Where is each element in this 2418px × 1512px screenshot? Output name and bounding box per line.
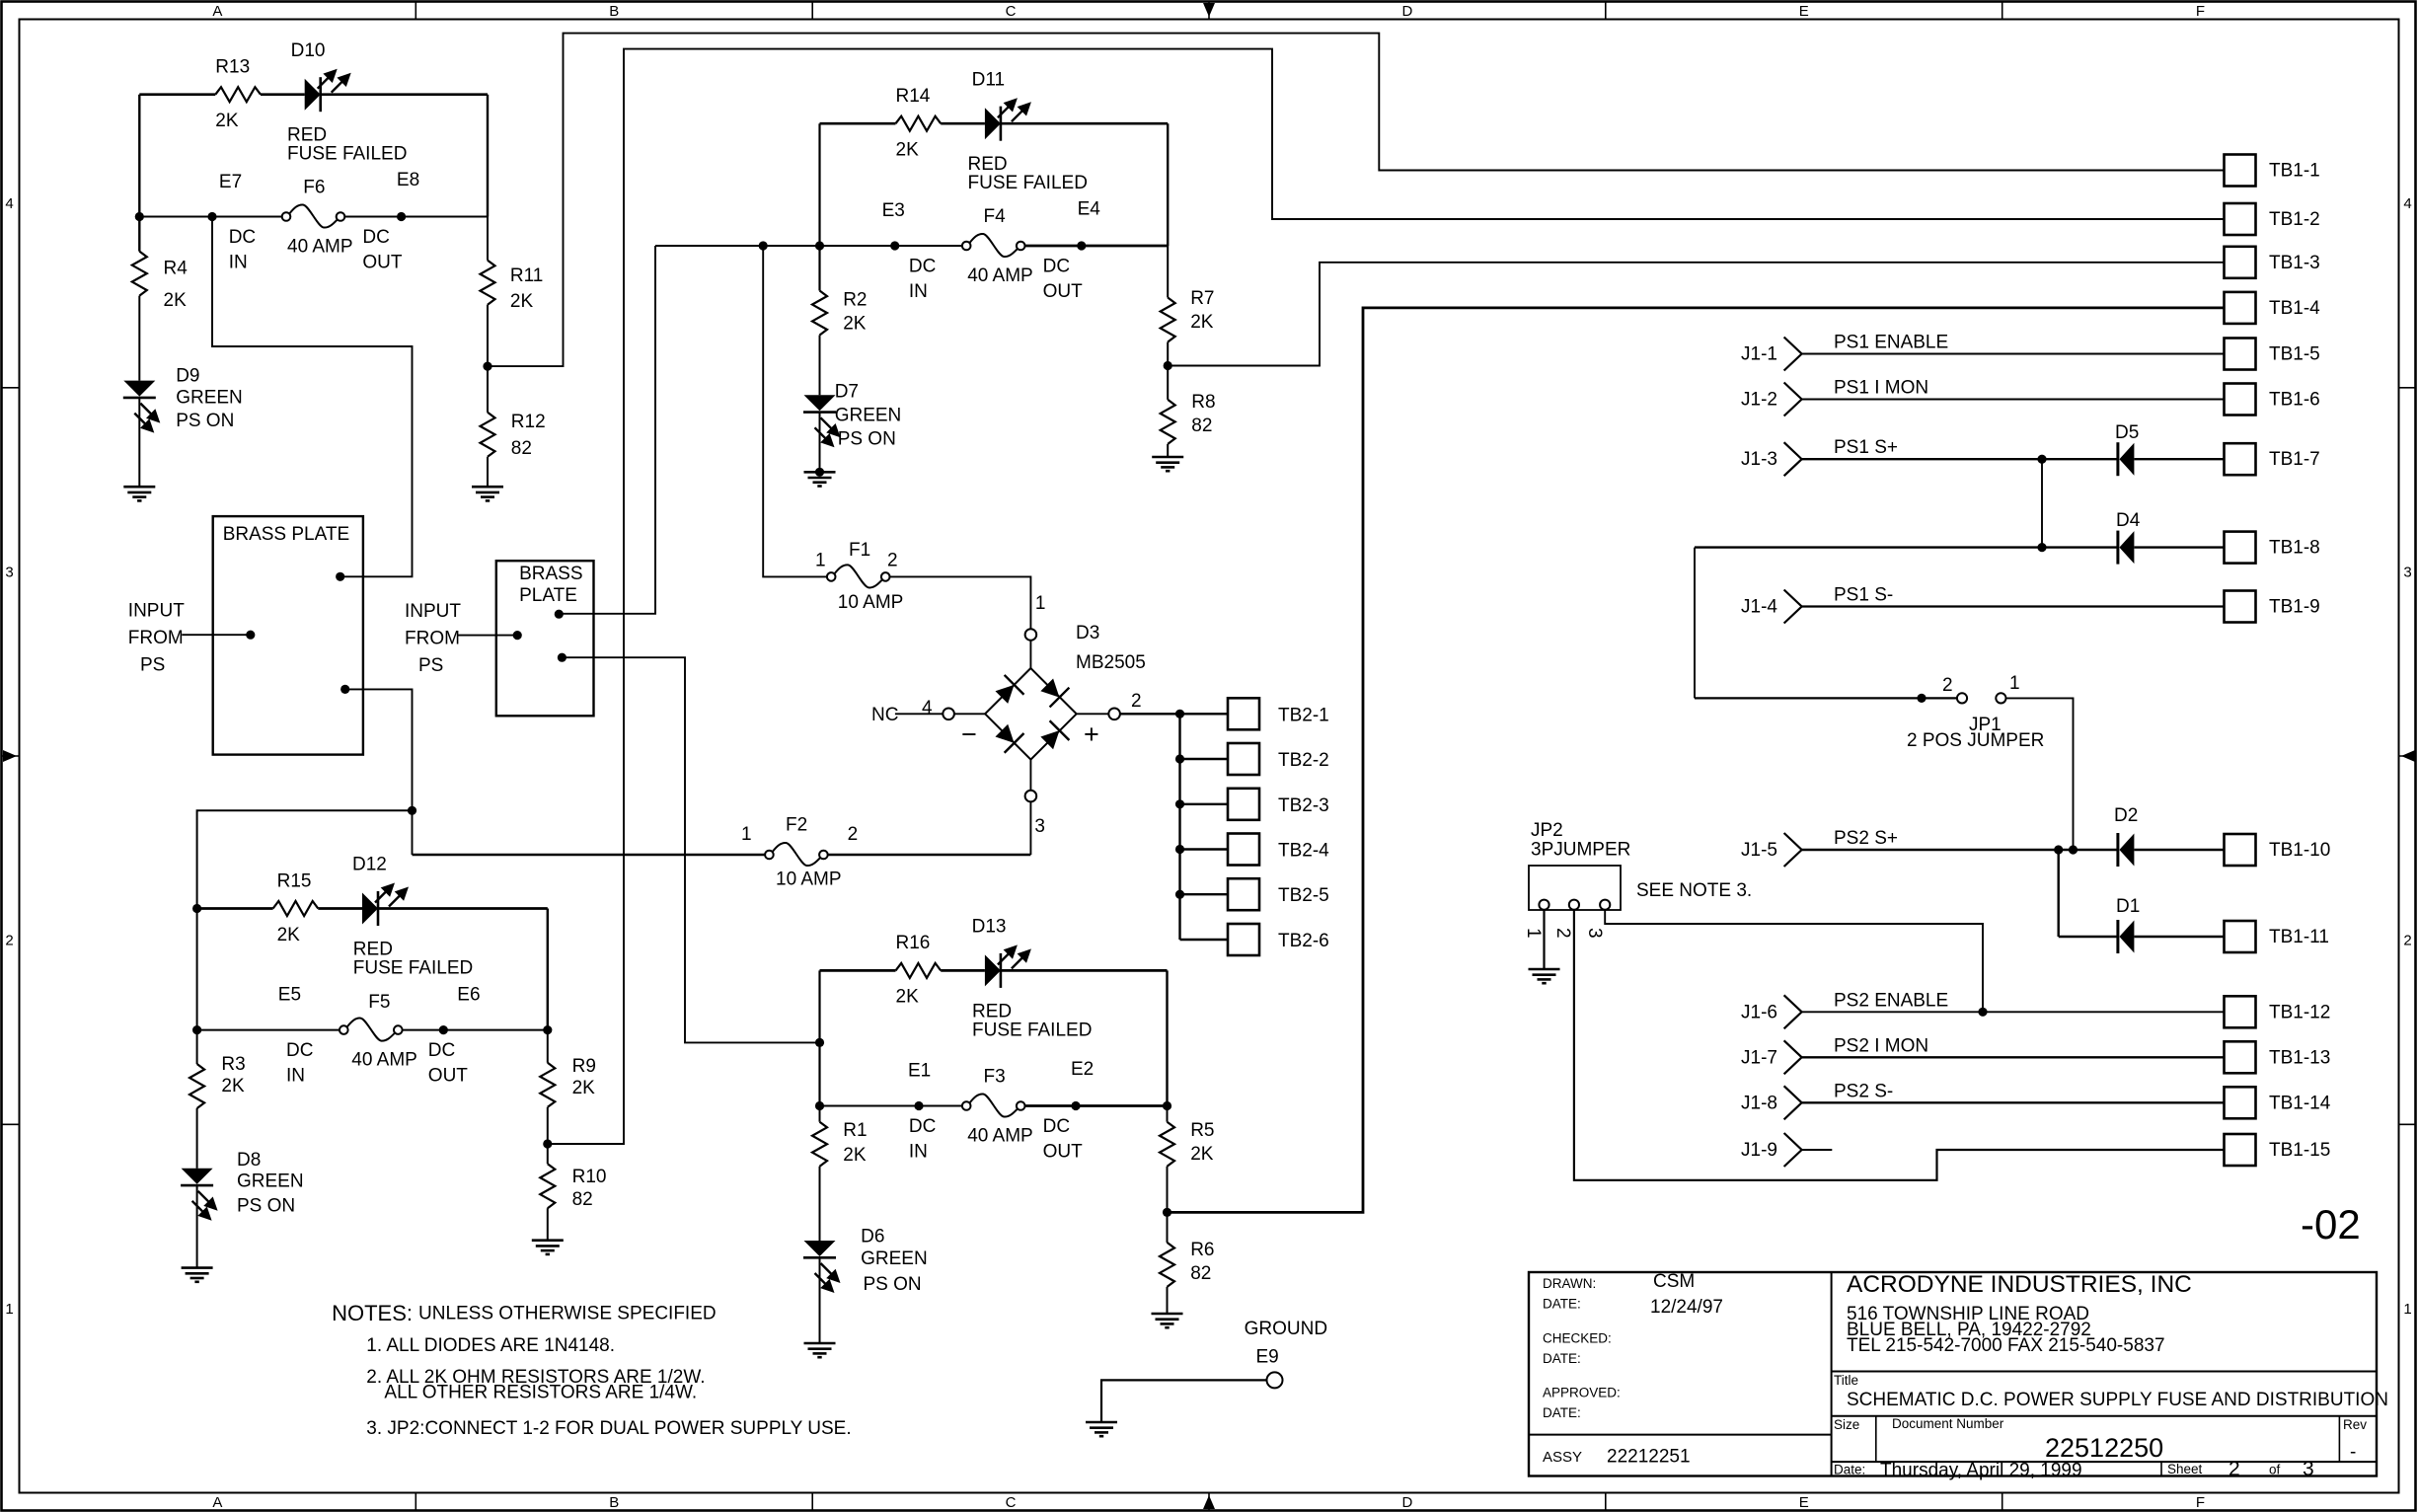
svg-text:SEE NOTE 3.: SEE NOTE 3. [1636,880,1752,901]
resistor R15 2K [273,901,319,916]
svg-text:2K: 2K [164,290,188,311]
wire brass plate 2 lower pin to block4 feed [562,657,819,1042]
svg-text:Document Number: Document Number [1892,1416,2004,1431]
wire R3 to D8 [196,1108,198,1169]
svg-text:SCHEMATIC D.C. POWER SUPPLY FU: SCHEMATIC D.C. POWER SUPPLY FUSE AND DIS… [1847,1390,2388,1410]
svg-text:FUSE FAILED: FUSE FAILED [968,173,1088,193]
junction TB2-3 tap [1175,799,1184,808]
pin brass plate 2 top [555,610,564,619]
wire bridge pin2 to TB2 trunk [1120,713,1180,715]
svg-text:INPUT: INPUT [128,600,185,621]
svg-text:TB1-5: TB1-5 [2269,344,2320,365]
svg-text:1: 1 [2009,673,2020,694]
svg-text:J1-7: J1-7 [1741,1047,1777,1068]
fuse F3 40 AMP [962,1094,1025,1116]
svg-text:82: 82 [1191,416,1212,436]
wire JP2 pin3 to PS2 ENABLE [1605,910,1983,1013]
svg-text:1: 1 [2403,1301,2411,1318]
svg-text:2K: 2K [1190,1144,1214,1165]
svg-text:3: 3 [5,564,13,580]
junction node E3 [890,241,899,250]
svg-text:B: B [609,3,619,20]
wire to TB2-2 [1180,758,1229,760]
svg-text:R5: R5 [1190,1120,1214,1141]
wire R11 to junction [487,305,489,366]
connector J1-8 [1784,1086,1802,1119]
bridge rectifier D3 MB2505 body [985,668,1077,760]
svg-text:FUSE FAILED: FUSE FAILED [972,1020,1092,1040]
svg-text:R11: R11 [510,265,543,286]
svg-text:GREEN: GREEN [237,1172,304,1192]
svg-text:J1-8: J1-8 [1741,1093,1777,1113]
ground (E9) [1086,1422,1117,1436]
wire right column down (block1) [487,95,489,217]
junction node E1 [914,1101,923,1110]
wire DC IN net to brass plate 1 [212,217,413,577]
ground (R8) [1152,457,1183,471]
fuse F4 40 AMP [962,234,1025,257]
junction block3 feed [408,806,416,815]
pin brass plate 2 input [513,631,522,640]
svg-text:2K: 2K [572,1078,596,1098]
fuse F2 10 AMP [765,843,828,866]
svg-text:Title: Title [1834,1373,1858,1388]
wire to TB2-3 [1180,803,1229,805]
svg-text:of: of [2269,1463,2281,1477]
svg-text:B: B [609,1494,619,1511]
svg-text:1: 1 [1035,593,1046,614]
wire right column down (block4) [1166,970,1168,1105]
wire F2 row right [828,854,1030,857]
junction node E4 [1077,241,1086,250]
terminal TB2-5 [1228,878,1259,910]
svg-text:D8: D8 [237,1150,261,1171]
ground (D7) [804,472,836,486]
svg-text:J1-1: J1-1 [1741,344,1777,365]
svg-text:E9: E9 [1256,1347,1279,1368]
svg-text:PS ON: PS ON [838,429,896,450]
svg-text:82: 82 [572,1189,593,1210]
svg-text:UNLESS OTHERWISE SPECIFIED: UNLESS OTHERWISE SPECIFIED [418,1304,717,1324]
svg-text:PS1 S-: PS1 S- [1834,585,1893,606]
terminal TB2-3 [1228,789,1259,820]
wire PS2 ENABLE to TB1-12 [1802,1011,2225,1013]
terminal TB1-4 [2225,292,2256,324]
svg-text:2K: 2K [843,314,867,335]
svg-text:-: - [2350,1442,2356,1463]
svg-text:22512250: 22512250 [2045,1433,2163,1463]
svg-text:TB1-14: TB1-14 [2269,1093,2331,1113]
wire PS1 I MON to TB1-6 [1802,399,2225,401]
wire net sense to TB1-4 [1168,308,2225,1213]
wire F2 row left [413,854,766,857]
wire D8 to ground [196,1185,198,1268]
svg-text:2: 2 [1552,928,1573,939]
pin brass plate 1 input [246,631,255,640]
wire fuse row right (block4) [1025,1104,1168,1107]
svg-text:E: E [1799,3,1809,20]
junction fuse row / left column (block4) [815,1101,824,1110]
resistor R16 2K [896,963,942,978]
svg-text:RED: RED [353,940,393,960]
wire fuse row right (block2) [1025,245,1169,248]
junction R5/R6 sense node [1163,1208,1171,1217]
svg-text:E5: E5 [278,985,301,1006]
terminal TB1-5 [2225,339,2256,370]
wire fuse row to R5 [1167,1106,1169,1122]
svg-text:2: 2 [1942,675,1953,696]
resistor R8 82 [1161,400,1175,444]
svg-text:MB2505: MB2505 [1076,652,1146,673]
svg-text:82: 82 [511,438,532,459]
wire D10 to right column [321,93,488,96]
junction LED row / left column (block3) [192,904,201,913]
svg-text:2K: 2K [896,140,920,161]
svg-text:D7: D7 [835,382,859,403]
svg-text:R10: R10 [572,1167,607,1187]
svg-text:2K: 2K [510,291,534,312]
brass plate 2 box [496,561,594,716]
wire junction to R8 [1167,366,1169,400]
resistor R6 82 [1160,1243,1174,1287]
svg-text:E6: E6 [457,985,480,1006]
wire fuse row right (block3) [403,1029,548,1031]
ground (D9) [123,487,155,500]
fuse F1 10 AMP [827,565,890,587]
ground (D8) [182,1268,213,1282]
svg-text:ASSY: ASSY [1543,1449,1582,1466]
svg-text:D13: D13 [972,917,1007,938]
bridge diode top-left [992,675,1024,708]
svg-text:R15: R15 [277,871,312,892]
svg-text:+: + [1084,719,1099,749]
junction PS2 S+ / JP1 [2069,845,2078,854]
terminal TB1-15 [2225,1134,2256,1166]
wire D4 row [1695,546,2118,548]
pin brass plate 1 bottom [340,685,349,694]
resistor R5 2K [1160,1122,1174,1167]
resistor R1 2K [812,1122,827,1167]
svg-text:TB1-3: TB1-3 [2269,253,2320,273]
diode D4 [2118,531,2135,565]
wire net sense to TB1-3 [1168,263,2224,366]
svg-text:R1: R1 [843,1120,867,1141]
svg-text:TB1-1: TB1-1 [2269,161,2320,182]
svg-text:R3: R3 [221,1054,245,1075]
svg-text:F: F [2196,1494,2205,1511]
svg-text:E8: E8 [397,170,419,190]
svg-text:DATE:: DATE: [1543,1297,1581,1312]
wire R2 to D7 [819,336,821,396]
resistor R7 2K [1161,298,1175,342]
wire D5 to TB1-7 [2135,458,2225,460]
svg-text:TB2-1: TB2-1 [1278,705,1329,725]
svg-text:TB2-3: TB2-3 [1278,795,1329,816]
wire E9 to ground [1101,1380,1267,1422]
svg-text:NOTES:: NOTES: [332,1301,413,1325]
pin bridge 1 [1025,629,1037,641]
svg-text:D: D [1401,1494,1412,1511]
wire to TB2-4 [1180,848,1229,850]
wire net PS2 sense to TB1-2 [548,49,2225,1144]
wire D1 to TB1-11 [2135,936,2225,938]
svg-text:TB2-5: TB2-5 [1278,885,1329,906]
wire to TB2-5 [1180,893,1229,895]
jumper JP2 box [1529,866,1621,910]
svg-text:3: 3 [2403,564,2411,580]
wire branch to D1 row [2057,850,2059,937]
svg-text:2: 2 [1131,691,1142,712]
svg-text:DRAWN:: DRAWN: [1543,1276,1596,1291]
svg-text:F2: F2 [786,815,807,836]
wire PS2 I MON to TB1-13 [1802,1056,2225,1058]
title block [1529,1272,2377,1476]
wire left column upper (block1) [138,95,140,252]
svg-text:-02: -02 [2301,1201,2361,1247]
svg-text:ALL OTHER RESISTORS ARE 1/4W.: ALL OTHER RESISTORS ARE 1/4W. [384,1383,697,1403]
svg-text:D3: D3 [1076,623,1099,643]
svg-text:F3: F3 [984,1067,1006,1088]
svg-text:PS: PS [418,655,443,676]
pin JP2-3 [1600,900,1610,910]
svg-text:10 AMP: 10 AMP [838,592,904,613]
svg-text:TB2-6: TB2-6 [1278,931,1329,951]
svg-text:DC: DC [229,227,256,248]
wire D13 to right column [1001,969,1168,972]
svg-text:Rev: Rev [2343,1417,2367,1432]
wire R16 to D13 [941,969,985,972]
wire left column upper (block2) [818,123,820,290]
svg-text:2: 2 [2229,1458,2240,1480]
svg-text:D10: D10 [291,40,326,61]
wire PS1 S- to TB1-9 [1802,605,2225,607]
svg-text:APPROVED:: APPROVED: [1543,1386,1621,1400]
wire R13 to D10 [261,93,305,96]
svg-text:OUT: OUT [1043,1142,1084,1163]
svg-text:22212251: 22212251 [1607,1447,1691,1468]
connector J1-2 [1784,383,1802,416]
wire feed to block3 left column [197,810,413,908]
svg-text:1: 1 [815,551,826,571]
svg-text:TB1-10: TB1-10 [2269,840,2330,861]
junction node E7 DC IN tap [207,212,216,221]
wire JP1 row [1695,697,1957,699]
connector J1-4 [1784,590,1802,624]
wire diamond to bridge pin3 [1029,760,1031,791]
wire R8 to ground [1167,444,1169,457]
pin bridge 3 [1025,791,1037,802]
svg-text:2K: 2K [896,987,920,1008]
wire fuse row left (block1) [139,216,281,218]
svg-text:PS1 I MON: PS1 I MON [1834,378,1928,399]
svg-text:R13: R13 [215,57,250,78]
svg-text:F1: F1 [849,540,870,561]
junction fuse row / R9 column [543,1025,552,1034]
svg-text:FROM: FROM [405,629,460,649]
svg-text:R16: R16 [896,933,931,953]
pin bridge 2 [1108,709,1120,720]
wire R7 to junction [1167,342,1169,366]
LED D8 GREEN PS ON [181,1169,218,1221]
wire D4 row to JP1 [1694,548,1696,699]
wire branch to D4 row [2041,459,2043,547]
junction fuse row / R5 column [1163,1101,1171,1110]
svg-text:DC: DC [1043,257,1070,277]
svg-text:GREEN: GREEN [861,1248,928,1269]
junction D7 ground [815,468,824,477]
svg-text:RED: RED [972,1001,1012,1021]
resistor R2 2K [812,291,827,336]
svg-text:2: 2 [848,824,859,845]
svg-text:2: 2 [887,551,898,571]
resistor R12 82 [481,413,495,457]
wire fuse row left (block3) [197,1029,340,1031]
LED D13 RED FUSE FAILED [985,945,1031,988]
wire junction to R12 [487,366,489,413]
svg-text:J1-2: J1-2 [1741,390,1777,411]
junction TB2-2 tap [1175,754,1184,763]
junction PS1 S+ / D4 branch [2037,455,2046,464]
svg-text:IN: IN [909,1142,928,1163]
svg-text:C: C [1006,1494,1017,1511]
svg-text:E4: E4 [1078,199,1101,220]
svg-text:D6: D6 [861,1226,884,1247]
wire R4 to D9 [138,296,140,381]
svg-text:F: F [2196,3,2205,20]
svg-text:FUSE FAILED: FUSE FAILED [353,958,473,979]
wire F1 to bridge pin1 [890,576,1031,629]
svg-text:1: 1 [5,1301,13,1318]
wire DC IN net to brass plate 2 top pin [559,246,655,614]
svg-text:INPUT: INPUT [405,601,461,622]
svg-text:F5: F5 [368,992,390,1013]
junction PS2 S+ / D1 branch [2054,845,2063,854]
junction F1 feed tap [759,241,768,250]
svg-text:OUT: OUT [428,1066,469,1087]
svg-text:R7: R7 [1190,288,1214,309]
svg-text:Size: Size [1834,1417,1859,1432]
svg-text:DC: DC [909,1116,936,1137]
svg-text:D: D [1401,3,1412,20]
wire fuse row to R7 [1167,246,1169,298]
svg-text:FROM: FROM [128,628,184,648]
svg-text:TB1-15: TB1-15 [2269,1140,2330,1161]
wire diamond to bridge pin2 [1077,713,1109,715]
wire net PS1 sense to TB1-1 [488,34,2225,367]
svg-text:TB2-4: TB2-4 [1278,841,1329,862]
wire right column down (block2) [1167,123,1169,246]
svg-text:4: 4 [5,195,13,212]
wire D7 to ground [819,413,821,473]
svg-text:3. JP2:CONNECT 1-2 FOR DUAL P: 3. JP2:CONNECT 1-2 FOR DUAL POWER SUPPLY… [366,1418,851,1439]
wire left column to R3 [196,909,198,1065]
pin JP2-2 [1569,900,1579,910]
svg-text:DC: DC [428,1040,455,1061]
svg-text:3PJUMPER: 3PJUMPER [1531,840,1630,861]
svg-text:PS2 S-: PS2 S- [1834,1081,1893,1101]
svg-text:4: 4 [2403,195,2411,212]
junction R9/R10 sense node [543,1139,552,1148]
junction R11/R12 sense node [483,362,491,371]
wire R12 to ground [487,457,489,487]
svg-text:RED: RED [968,154,1008,175]
LED D7 GREEN PS ON [803,395,841,447]
svg-text:E1: E1 [908,1061,931,1082]
pin E9 [1267,1372,1283,1388]
svg-text:PS ON: PS ON [864,1274,922,1295]
pin JP1-1 [1996,693,2005,703]
connector J1-6 [1784,995,1802,1028]
svg-text:40 AMP: 40 AMP [287,236,353,257]
svg-text:D11: D11 [972,70,1005,91]
wire input from PS to brass plate 2 [457,635,517,637]
svg-text:TB1-11: TB1-11 [2269,927,2329,947]
svg-text:3: 3 [1584,928,1605,939]
terminal TB1-2 [2225,203,2256,235]
svg-text:2K: 2K [843,1145,867,1166]
svg-text:GREEN: GREEN [835,406,902,426]
svg-text:PS: PS [140,655,165,676]
terminal TB2-2 [1228,743,1259,775]
wire fuse row right (block1) [344,216,488,218]
ground (JP2 pin1) [1529,969,1560,983]
svg-text:GREEN: GREEN [176,387,243,408]
pin brass plate 1 top [336,572,344,581]
resistor R3 2K [189,1064,204,1108]
wire fuse row left (block4) [820,1105,962,1107]
svg-text:82: 82 [1190,1263,1211,1284]
pin brass plate 2 bottom [558,653,567,662]
svg-text:GROUND: GROUND [1245,1319,1327,1339]
wire input from PS to brass plate 1 [182,634,251,636]
svg-text:3: 3 [2303,1458,2314,1480]
wire PS1 S+ to D5 [1802,458,2118,460]
wire R9 to junction [547,1107,549,1144]
svg-text:1: 1 [1523,928,1544,939]
wire D2 to TB1-10 [2135,849,2225,851]
junction TB2-5 tap [1175,890,1184,899]
terminal TB1-3 [2225,247,2256,278]
svg-text:R4: R4 [164,259,189,279]
resistor R9 2K [540,1063,555,1107]
svg-text:2K: 2K [277,925,301,945]
svg-text:2K: 2K [215,111,239,131]
svg-text:BRASS PLATE: BRASS PLATE [223,524,349,545]
svg-text:JP2: JP2 [1531,820,1563,841]
svg-text:PS2 S+: PS2 S+ [1834,828,1898,849]
svg-text:BRASS: BRASS [519,564,582,584]
svg-text:−: − [961,719,977,749]
wire D11 to right column [1001,122,1168,125]
junction R7/R8 sense node [1164,361,1172,370]
svg-text:E: E [1799,1494,1809,1511]
svg-text:3: 3 [1034,816,1045,837]
wire to TB2-6 [1180,939,1229,941]
LED D10 RED FUSE FAILED [305,69,351,113]
fuse F5 40 AMP [340,1019,403,1041]
wire R6 to ground [1167,1287,1169,1314]
svg-text:DC: DC [362,227,389,248]
ground (R12) [472,487,503,500]
wire left column upper (block4) [818,970,820,1105]
resistor R13 2K [215,87,261,102]
bridge diode bottom-right [1037,720,1070,753]
svg-text:R2: R2 [843,290,867,311]
wire bridge pin3 down [1029,801,1031,855]
LED D11 RED FUSE FAILED [985,98,1031,141]
terminal TB1-6 [2225,384,2256,416]
junction node E6 [439,1025,448,1034]
